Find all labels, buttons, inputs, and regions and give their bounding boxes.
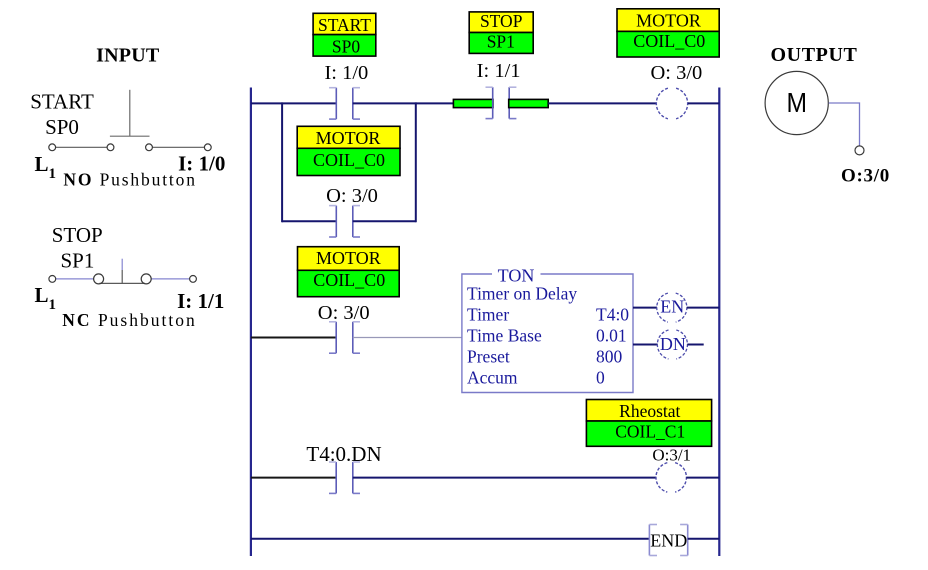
svg-text:I: 1/1: I: 1/1 — [477, 60, 521, 82]
svg-text:STOP: STOP — [480, 11, 523, 31]
svg-text:SP1: SP1 — [487, 32, 515, 52]
svg-text:COIL_C0: COIL_C0 — [313, 150, 385, 170]
left power rail — [250, 88, 252, 557]
svg-text:T4:0.DN: T4:0.DN — [306, 442, 381, 466]
svg-text:Timer on Delay: Timer on Delay — [467, 284, 577, 304]
svg-text:COIL_C0: COIL_C0 — [633, 31, 705, 51]
timer TON T4:0 function block — [462, 266, 633, 393]
svg-text:EN: EN — [660, 297, 684, 317]
branch vertical left — [281, 102, 283, 222]
NO pushbutton terminal circles — [49, 144, 211, 151]
rung 3 wire: coil to right rail — [686, 477, 719, 479]
wire TON box to EN coil — [633, 307, 657, 309]
coil OTE O:3/1 — [656, 463, 686, 492]
contact XIO I:1/1 — [486, 87, 517, 118]
svg-text:O:3/0: O:3/0 — [841, 166, 890, 187]
energized highlight rect right of I:1/1 — [509, 99, 549, 107]
tag box START/SP0 — [313, 13, 376, 56]
svg-text:SP1: SP1 — [60, 249, 94, 273]
NC pushbutton plunger — [121, 259, 123, 270]
tag box STOP/SP1 — [469, 11, 533, 53]
NO pushbutton wire right — [152, 146, 204, 148]
tag box Rheostat/COIL_C1 — [586, 400, 711, 447]
output terminal circle — [855, 146, 864, 155]
svg-text:I: 1/0: I: 1/0 — [324, 62, 368, 84]
svg-text:COIL_C1: COIL_C1 — [615, 422, 685, 442]
svg-text:O: 3/0: O: 3/0 — [650, 62, 702, 84]
coil OTE O:3/0 — [656, 88, 687, 119]
svg-text:0.01: 0.01 — [596, 326, 627, 346]
svg-text:SP0: SP0 — [332, 36, 360, 56]
svg-text:T4:0: T4:0 — [596, 305, 629, 325]
svg-text:END: END — [650, 531, 687, 551]
svg-text:OUTPUT: OUTPUT — [771, 44, 858, 66]
branch bottom wire left — [282, 220, 336, 222]
contact XIC I:1/0 — [329, 88, 360, 119]
svg-text:DN: DN — [660, 334, 686, 354]
contact XIC O:3/0 (rung2) — [329, 322, 360, 353]
NC pushbutton terminal circles — [49, 274, 197, 284]
svg-text:START: START — [30, 89, 94, 113]
contact XIC T4:0.DN — [329, 462, 360, 493]
tag box MOTOR/COIL_C0 (rung2 contact) — [298, 247, 400, 297]
energized highlight rect left of I:1/1 — [453, 99, 493, 107]
NC pushbutton wire left — [56, 278, 94, 280]
svg-text:MOTOR: MOTOR — [636, 11, 701, 31]
wire DN coil stub right — [687, 344, 703, 346]
svg-text:NO Pushbutton: NO Pushbutton — [63, 169, 196, 189]
wire TON box to DN coil — [633, 344, 658, 346]
coil DN — [657, 330, 687, 359]
wire EN coil to right rail — [687, 307, 720, 309]
rung 4 wire: rail to END — [251, 538, 650, 540]
NO pushbutton wire left — [56, 146, 108, 148]
svg-text:O:3/1: O:3/1 — [652, 446, 691, 465]
svg-text:MOTOR: MOTOR — [316, 128, 381, 148]
output wire — [829, 103, 860, 146]
svg-text:NC Pushbutton: NC Pushbutton — [62, 310, 196, 330]
rung 4 wire: END to right rail — [688, 538, 720, 540]
NO pushbutton plunger — [110, 90, 150, 136]
tag box MOTOR/COIL_C0 (branch contact) — [297, 126, 400, 175]
svg-text:Rheostat: Rheostat — [619, 401, 680, 421]
svg-text:TON: TON — [498, 266, 535, 286]
svg-text:Time Base: Time Base — [467, 326, 542, 346]
NC pushbutton wire right — [152, 278, 190, 280]
svg-text:0: 0 — [596, 368, 605, 388]
rung 3 wire: contact to coil O:3/1 — [353, 477, 656, 479]
svg-text:M: M — [786, 87, 807, 118]
branch bottom wire right — [353, 220, 416, 222]
svg-text:COIL_C0: COIL_C0 — [313, 270, 385, 290]
END instruction brackets — [649, 525, 687, 556]
svg-text:Preset: Preset — [467, 347, 510, 367]
svg-text:SP0: SP0 — [45, 115, 79, 139]
svg-text:800: 800 — [596, 347, 623, 367]
svg-text:O: 3/0: O: 3/0 — [318, 302, 370, 324]
right power rail — [718, 88, 720, 557]
rung 1 wire: contact I:1/0 to highlight — [353, 102, 454, 104]
svg-text:START: START — [318, 15, 371, 35]
NC pushbutton bar — [99, 282, 145, 284]
tag box MOTOR/COIL_C0 (rung1 coil) — [617, 9, 719, 57]
rung 1 wire: rail to contact I:1/0 — [251, 102, 336, 104]
branch vertical right — [415, 102, 417, 222]
rung 3 wire: rail to contact (black) — [251, 477, 336, 479]
contact XIC O:3/0 (branch) — [329, 206, 360, 237]
rung 1 wire: highlight to coil O:3/0 — [548, 102, 656, 104]
rung 1 wire: coil to right rail — [688, 102, 719, 104]
motor M symbol — [765, 71, 828, 134]
svg-text:Accum: Accum — [467, 368, 518, 388]
svg-text:INPUT: INPUT — [96, 45, 160, 67]
svg-text:Timer: Timer — [467, 305, 509, 325]
rung 2 wire: contact to TON box (thin) — [353, 337, 462, 339]
coil EN — [657, 293, 687, 322]
svg-text:O: 3/0: O: 3/0 — [326, 185, 378, 207]
svg-text:STOP: STOP — [52, 223, 103, 247]
svg-text:MOTOR: MOTOR — [316, 248, 381, 268]
rung 2 wire: rail to contact (black) — [251, 337, 336, 339]
